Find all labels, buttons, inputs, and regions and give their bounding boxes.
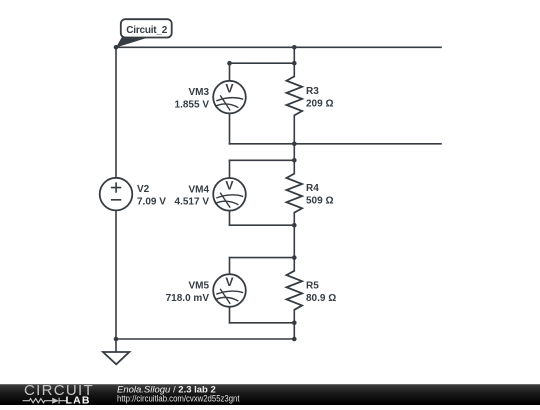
resistor R4 xyxy=(287,174,303,213)
svg-text:VM4: VM4 xyxy=(188,184,209,195)
svg-text:V: V xyxy=(225,81,234,95)
node VM5-bottom junction xyxy=(292,321,297,326)
node dots xyxy=(114,45,297,341)
logo diode triangle xyxy=(52,398,59,404)
svg-text:R3: R3 xyxy=(306,86,319,97)
resistor R3 xyxy=(287,76,303,115)
wire VM4 top horizontal xyxy=(230,159,295,161)
wire VM4 top lead xyxy=(229,160,231,178)
wire R5 bottom to bottom rail xyxy=(293,310,295,339)
node A x right vertical junction xyxy=(292,45,297,50)
wire VM5 bottom horizontal xyxy=(230,322,295,324)
wire VM5 top horizontal xyxy=(230,257,295,259)
node VM3 top-left junction xyxy=(227,61,232,66)
svg-text:209 Ω: 209 Ω xyxy=(306,98,333,109)
svg-text:VM3: VM3 xyxy=(188,87,209,98)
label VM5 value xyxy=(166,281,210,304)
wire right vertical top (rail to R3) xyxy=(293,47,295,76)
svg-text:V: V xyxy=(225,275,234,289)
svg-text:LAB: LAB xyxy=(66,395,91,406)
logo resistor squiggle and diode xyxy=(23,398,67,404)
wire R4 bottom to R5 top xyxy=(293,213,295,271)
node VM4-top junction xyxy=(292,158,297,163)
wire VM4 bottom lead xyxy=(229,211,231,226)
wire left vertical (top rail to V2 top) xyxy=(115,47,117,178)
voltage source V2 xyxy=(100,178,133,211)
node B junction xyxy=(292,142,297,147)
voltmeter VM3 xyxy=(213,81,246,114)
label VM4 value xyxy=(175,184,210,207)
wire R3 bottom to node B xyxy=(293,115,295,143)
wire V2 bottom to bottom node xyxy=(115,210,117,339)
wire VM3 top horizontal xyxy=(230,62,295,64)
svg-text:4.517 V: 4.517 V xyxy=(175,197,210,208)
svg-text:1.855 V: 1.855 V xyxy=(175,100,210,111)
svg-text:http://circuitlab.com/cvxw2d55: http://circuitlab.com/cvxw2d55z3gnt xyxy=(117,394,240,405)
label R5 value xyxy=(306,280,336,304)
wire VM5 bottom lead xyxy=(229,307,231,323)
node top-left junction xyxy=(114,45,119,50)
resistor R5 xyxy=(287,271,303,310)
ground xyxy=(103,352,129,364)
wire node B to R4 top xyxy=(293,144,295,174)
label R3 value xyxy=(306,86,333,110)
label VM3 value xyxy=(175,87,210,110)
wire VM3 bottom lead xyxy=(229,113,231,143)
node VM4-bottom junction xyxy=(292,223,297,228)
node bottom rail x R5 junction xyxy=(292,337,297,342)
wire node B rail (VM3 bottom to right) xyxy=(230,143,442,145)
wire VM4 bottom horizontal xyxy=(230,224,295,226)
svg-text:V: V xyxy=(225,179,234,193)
node VM3-top x R3 junction xyxy=(292,61,297,66)
label R4 value xyxy=(306,183,333,207)
wire VM3 top lead xyxy=(229,63,231,81)
voltmeter VM5 xyxy=(213,274,246,307)
footer bar xyxy=(0,384,540,405)
svg-text:80.9 Ω: 80.9 Ω xyxy=(306,293,336,304)
wire top rail node A xyxy=(116,46,441,48)
svg-text:VM5: VM5 xyxy=(188,281,209,292)
wire bottom rail xyxy=(116,338,294,340)
node label Circuit_2 xyxy=(116,19,172,47)
node VM5-top junction xyxy=(292,255,297,260)
label V2 value xyxy=(137,184,166,207)
svg-text:R4: R4 xyxy=(306,183,319,194)
svg-text:7.09 V: 7.09 V xyxy=(137,196,166,207)
svg-text:V2: V2 xyxy=(137,184,150,195)
svg-text:R5: R5 xyxy=(306,280,319,291)
svg-text:Circuit_2: Circuit_2 xyxy=(126,25,167,36)
wire VM5 top lead xyxy=(229,258,231,275)
svg-text:718.0 mV: 718.0 mV xyxy=(166,293,210,304)
voltmeter VM4 xyxy=(213,178,246,211)
wire ground stub xyxy=(115,339,117,352)
svg-text:509 Ω: 509 Ω xyxy=(306,196,333,207)
node bottom-left junction xyxy=(114,337,119,342)
